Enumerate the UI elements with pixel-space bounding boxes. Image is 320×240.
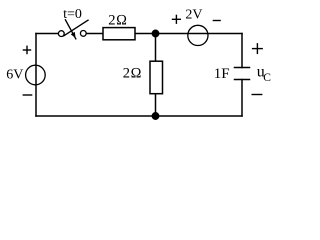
switch S right contact (80, 31, 86, 37)
resistor R2 2ohm (middle) (150, 61, 163, 93)
label - (6V source) (23, 94, 33, 96)
svg-text:6V: 6V (6, 67, 23, 82)
wire top rail (switch to right corner) (86, 33, 242, 35)
svg-text:C: C (263, 72, 271, 84)
svg-text:t=0: t=0 (63, 7, 82, 22)
wire right rail upper (241, 34, 243, 68)
svg-text:1F: 1F (214, 66, 230, 82)
voltage source U1 6V (26, 65, 46, 85)
wire right rail lower (241, 80, 243, 117)
switch S (t=0) left contact (58, 31, 64, 37)
label - (2V source) (213, 20, 221, 22)
svg-text:2Ω: 2Ω (123, 66, 142, 82)
wire left rail (35, 34, 37, 117)
wire top-left (rail from left corner to switch) (36, 33, 59, 35)
switch S blade (64, 20, 88, 36)
switch S closing arrow shaft (65, 20, 75, 39)
capacitor C1 1F top plate (235, 67, 250, 69)
label + (6V source) (23, 46, 32, 55)
label + (capacitor) (252, 43, 263, 54)
wire middle branch lower (155, 95, 157, 117)
svg-text:2V: 2V (185, 7, 202, 22)
wire bottom rail (36, 115, 242, 117)
resistor R1 2ohm (top) (103, 28, 135, 40)
voltage source U2 2V (188, 25, 208, 45)
label + (2V source) (172, 15, 181, 24)
switch S arrowhead (71, 32, 76, 38)
label - (capacitor) (252, 94, 263, 96)
capacitor C1 1F bottom plate (235, 79, 250, 81)
node A junction dot (top) (152, 30, 158, 36)
wire middle branch upper (155, 34, 157, 61)
svg-text:2Ω: 2Ω (108, 13, 127, 29)
node B junction dot (bottom) (152, 113, 158, 119)
